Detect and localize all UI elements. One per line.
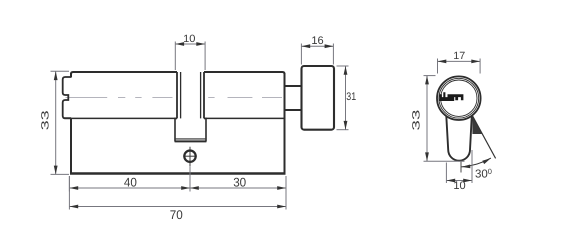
cylinder fin profile: [446, 116, 472, 161]
front face chamfer bumps (plug collar): [63, 77, 71, 118]
dim 33 left: extension top: [51, 70, 70, 72]
wire: body right edge: [284, 73, 286, 174]
dim 10 fin: extension left: [445, 163, 447, 184]
wire: body top edge right segment: [204, 72, 285, 74]
fin junction line left of cam: [64, 117, 177, 119]
dim 70: extension left: [68, 176, 70, 210]
cam slot left outer wall: [176, 72, 178, 118]
svg-text:17: 17: [453, 50, 465, 62]
dim 17: extension left: [437, 59, 439, 74]
dim 31 knob: extension bottom: [337, 129, 349, 131]
svg-text:40: 40: [124, 176, 137, 190]
cam slot right inner line: [200, 72, 202, 118]
screw hole crosshair horizontal: [183, 155, 196, 157]
rotation limit line 30deg: [472, 116, 495, 159]
svg-text:16: 16: [311, 35, 323, 47]
thumbturn neck top edge: [286, 85, 302, 87]
wire: body top edge left segment: [71, 72, 177, 74]
svg-text:70: 70: [170, 208, 183, 222]
fin centre tick: [460, 161, 462, 172]
face ring inner circle 2: [441, 80, 477, 116]
dim 40: dimension line: [69, 187, 190, 189]
wire: body left face edge: [70, 73, 72, 78]
dim 10 fin: dimension line: [446, 180, 472, 182]
dim 17: dimension line: [438, 60, 481, 62]
cam slot left inner line: [180, 72, 182, 118]
dim 10 cam: extension right: [204, 42, 206, 71]
svg-text:30: 30: [233, 176, 246, 190]
dim 10 cam: dimension line: [175, 43, 205, 45]
angle arc 30deg: [462, 158, 491, 167]
dim 31 knob: dimension line: [345, 66, 347, 130]
rotated-fin wedge: [472, 116, 482, 134]
keyway profile: [439, 92, 463, 101]
cam lower body right edge: [204, 118, 206, 141]
dim 70: extension right: [285, 176, 287, 210]
cam lower body left edge: [175, 118, 177, 141]
screw hole: [184, 151, 195, 162]
dim 16 knob: extension left: [300, 44, 302, 65]
dim 33 left: extension bottom: [51, 173, 70, 175]
dim 31 knob: extension top: [337, 65, 349, 67]
dim 10 fin: extension right: [471, 150, 473, 183]
svg-text:300: 300: [475, 167, 492, 181]
thumbturn neck bottom edge: [286, 109, 302, 111]
dim 70: dimension line: [69, 206, 286, 208]
dim 33 left: dimension line: [55, 71, 57, 174]
fin junction line right of cam: [205, 117, 285, 119]
thumbturn knob: [302, 66, 335, 130]
cam bottom edge: [175, 140, 207, 142]
dim 33 end view: extension top: [424, 75, 436, 77]
screw hole crosshair vertical / extension to dims: [189, 147, 191, 166]
dim 30: dimension line: [190, 187, 286, 189]
body outer circle: [437, 76, 481, 120]
svg-text:33: 33: [39, 110, 51, 130]
dim 40/30: extension right: [285, 176, 287, 192]
dim 16 knob: dimension line: [301, 45, 333, 47]
svg-text:31: 31: [346, 91, 356, 103]
dim 16 knob: extension right: [332, 44, 334, 65]
dim 33 end view: extension bottom: [424, 160, 465, 162]
svg-text:10: 10: [453, 180, 465, 192]
svg-text:33: 33: [411, 109, 423, 130]
dim 33 end view: dimension line: [426, 76, 428, 162]
svg-text:10: 10: [183, 33, 195, 45]
cam bottom inner line: [176, 138, 206, 140]
cam slot right outer wall: [203, 72, 205, 118]
wire: body bottom edge: [70, 172, 286, 174]
dim 40/30: extension left: [68, 176, 70, 192]
dim 17: extension right: [479, 59, 481, 74]
face ring inner circle 1: [439, 78, 479, 118]
centerline (cylinder axis): [66, 97, 284, 99]
dim 10 cam: extension left: [174, 42, 176, 71]
